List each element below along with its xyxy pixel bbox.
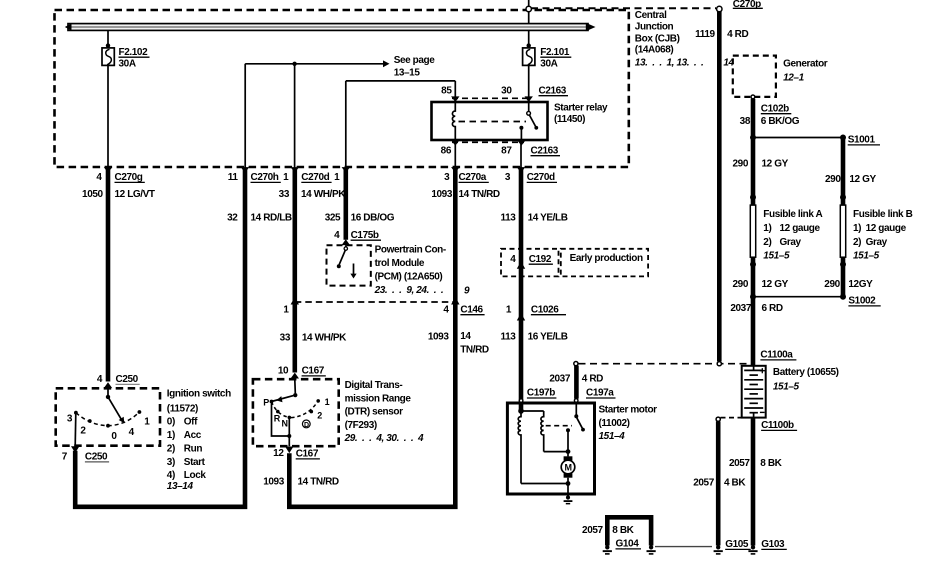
- wire contact 87 to relay bottom: [520, 128, 522, 140]
- wire 1050 12 LG/VT (CJB to ignition switch): [106, 169, 111, 382]
- wire winding return: [521, 483, 568, 485]
- CJB exit connector arrow C270g pin 4: [104, 167, 112, 173]
- dashed wire battery negative to 4 BK wire: [721, 417, 742, 419]
- wire 2057 4 BK (to G105): [716, 421, 721, 545]
- motor M1 (starter): [561, 456, 575, 477]
- starter relay (11450) box: [432, 102, 548, 140]
- svg-text:8 BK: 8 BK: [612, 525, 634, 536]
- svg-text:P: P: [263, 398, 269, 408]
- DTR pivot dot: [293, 393, 297, 397]
- DTR contact dashed arc: [272, 401, 319, 418]
- ignition contact dashed arc: [76, 412, 139, 426]
- svg-text:(14A068): (14A068): [635, 45, 674, 56]
- svg-text:C197b: C197b: [527, 388, 555, 399]
- svg-text:2: 2: [80, 426, 86, 437]
- central junction box (CJB) dashed outline: [55, 10, 629, 167]
- svg-text:16 DB/OG: 16 DB/OG: [351, 213, 395, 224]
- relay connector C2163 dashed line (top): [452, 97, 532, 99]
- bus bar (power feed inside CJB): [65, 23, 596, 31]
- connector C175b arrow: [342, 239, 350, 245]
- open circle top of 4 BK ground wire: [716, 417, 720, 421]
- svg-text:C146: C146: [460, 305, 483, 316]
- svg-text:C192: C192: [529, 254, 552, 265]
- svg-text:290: 290: [733, 279, 749, 290]
- wire fusible link B branch: [841, 138, 846, 297]
- relay connector C2163 dashed line (bottom): [452, 141, 524, 143]
- svg-text:290: 290: [824, 279, 840, 290]
- DTR contact D (circled): [302, 420, 310, 428]
- svg-text:N: N: [282, 419, 288, 429]
- dot at S1002 (right): [840, 294, 846, 300]
- svg-text:C167: C167: [296, 449, 319, 460]
- svg-text:7: 7: [62, 452, 68, 463]
- wire from bus bar up through CJB boundary (off-page feed): [528, 0, 530, 24]
- svg-text:14 TN/RD: 14 TN/RD: [459, 189, 500, 200]
- svg-text:1: 1: [334, 172, 340, 183]
- svg-text:Central: Central: [635, 10, 667, 21]
- svg-text:4: 4: [97, 374, 103, 385]
- svg-text:10: 10: [278, 366, 289, 377]
- svg-text:D: D: [304, 422, 309, 429]
- node C270p connector circle: [717, 6, 722, 11]
- splice S1001 tap wire: [753, 137, 843, 139]
- connector C250 arrow (exit pin 7): [71, 446, 79, 453]
- digital transmission range (DTR) sensor dashed box: [253, 379, 339, 446]
- ignition contact position 0: [106, 424, 110, 428]
- DTR switch blade to P: [272, 395, 296, 401]
- svg-text:4: 4: [129, 427, 135, 438]
- svg-text:2: 2: [317, 411, 322, 421]
- svg-text:C270d: C270d: [527, 172, 555, 183]
- svg-text:29. . . 4, 30. . . 4: 29. . . 4, 30. . . 4: [344, 433, 424, 444]
- svg-text:Run: Run: [184, 443, 203, 454]
- junction dot above fuse F2.102: [106, 43, 110, 47]
- DTR wire P branch: [272, 402, 290, 436]
- svg-text:Powertrain Con-: Powertrain Con-: [375, 244, 446, 255]
- starter mechanical link (dashed): [546, 425, 572, 427]
- svg-text:Gray: Gray: [866, 237, 888, 248]
- fuse F2.102: [102, 48, 114, 66]
- wire DB/OG to relay pin 85 (horizontal): [346, 80, 456, 82]
- svg-text:6 RD: 6 RD: [762, 303, 783, 314]
- svg-text:S1001: S1001: [848, 135, 876, 146]
- svg-text:38: 38: [740, 116, 751, 127]
- svg-text:1): 1): [167, 430, 175, 441]
- svg-text:2057: 2057: [729, 458, 750, 469]
- ground symbol (starter motor case): [564, 495, 573, 504]
- svg-text:F2.101: F2.101: [540, 47, 570, 58]
- svg-text:14 TN/RD: 14 TN/RD: [298, 477, 339, 488]
- svg-text:G103: G103: [761, 539, 785, 550]
- connector C146 dashed line: [295, 301, 456, 303]
- pin 87 connector arrow: [517, 140, 525, 146]
- svg-text:TN/RD: TN/RD: [460, 345, 489, 356]
- DTR wire N to pin 12 exit: [288, 417, 290, 446]
- svg-text:1093: 1093: [431, 189, 452, 200]
- svg-text:4: 4: [443, 305, 449, 316]
- wire 1119 4 RD (C270p to battery node): [717, 11, 722, 361]
- svg-text:4: 4: [510, 254, 516, 265]
- battery (10655): [742, 366, 766, 418]
- wire motor to box bottom: [567, 478, 569, 496]
- svg-text:12: 12: [273, 448, 284, 459]
- wire fuse F2.102 to CJB bottom edge: [107, 65, 109, 167]
- svg-text:Off: Off: [184, 417, 198, 428]
- wire contact to motor: [567, 430, 569, 456]
- svg-text:13–14: 13–14: [167, 481, 194, 492]
- connector circle on CJB boundary at x=528.7: [526, 6, 531, 11]
- pin 30 connector arrow: [525, 96, 533, 102]
- svg-text:4: 4: [96, 172, 102, 183]
- svg-text:87: 87: [501, 146, 512, 157]
- svg-text:1: 1: [325, 397, 330, 407]
- fusible link B element: [840, 205, 845, 257]
- wire relay pin 87 to CJB edge: [520, 140, 522, 168]
- svg-text:33: 33: [280, 333, 291, 344]
- svg-text:(7F293): (7F293): [345, 420, 377, 431]
- svg-text:C102b: C102b: [761, 104, 789, 115]
- ignition contact position 1: [138, 410, 142, 414]
- DTR contact P: [270, 400, 274, 404]
- wire fuse F2.101 to starter relay pin 30: [528, 65, 530, 102]
- wire from bus to fuse F2.102: [107, 30, 109, 48]
- svg-text:3): 3): [167, 457, 175, 468]
- powertrain control module (PCM) dashed box: [327, 245, 371, 285]
- svg-text:14 RD/LB: 14 RD/LB: [251, 213, 292, 224]
- svg-text:12 gauge: 12 gauge: [866, 223, 907, 234]
- svg-text:C2163: C2163: [531, 146, 559, 157]
- ignition switch entry wire: [107, 388, 109, 395]
- svg-text:C167: C167: [302, 366, 325, 377]
- svg-text:Junction: Junction: [635, 22, 674, 33]
- svg-text:C270g: C270g: [115, 172, 143, 183]
- svg-text:1): 1): [853, 223, 861, 234]
- ignition switch pivot dot: [106, 395, 110, 399]
- connector C146 arrow (pin 1): [291, 297, 299, 305]
- CJB exit connector arrow C270a pin 3: [451, 167, 459, 173]
- wire contact 3 to pin 7 exit: [74, 414, 77, 446]
- junction dot above fusible link A: [750, 194, 756, 200]
- svg-text:(PCM) (12A650): (PCM) (12A650): [375, 271, 443, 282]
- CJB exit connector arrow C270d pin 3: [517, 167, 525, 173]
- svg-text:1): 1): [763, 223, 771, 234]
- svg-text:4): 4): [167, 470, 175, 481]
- PCM switch blade: [339, 250, 345, 264]
- wire 325 16 DB/OG (CJB to PCM): [343, 169, 348, 240]
- connector C250 arrow (entry): [104, 382, 112, 388]
- svg-text:2057: 2057: [582, 525, 603, 536]
- ignition contact position 2: [88, 419, 92, 423]
- svg-text:14 WH/PK: 14 WH/PK: [301, 189, 346, 200]
- connector circle C102b at generator: [751, 95, 755, 99]
- ignition switch (11572) dashed box: [56, 388, 160, 445]
- junction dot above fusible link B: [840, 194, 846, 200]
- svg-text:13–15: 13–15: [394, 68, 421, 79]
- relay switch blade: [529, 115, 536, 127]
- connector C192 dashed box (early production): [501, 249, 559, 277]
- svg-text:C1100b: C1100b: [761, 420, 794, 431]
- connector circle C197b (at box): [519, 399, 523, 403]
- junction dot below fusible link A: [750, 261, 756, 267]
- solenoid pull-in winding (coil): [518, 411, 521, 484]
- svg-text:See page: See page: [394, 55, 436, 66]
- relay fixed contact (pin 87): [519, 126, 523, 130]
- svg-text:C270a: C270a: [459, 172, 487, 183]
- connector C167 arrow (entry): [291, 373, 299, 379]
- connector circle C197a (top): [574, 362, 578, 366]
- svg-text:C270h: C270h: [251, 172, 279, 183]
- svg-text:30A: 30A: [119, 59, 136, 70]
- svg-text:Box (CJB): Box (CJB): [635, 33, 680, 44]
- open circle end of 1119 4RD wire: [717, 362, 721, 366]
- svg-text:3: 3: [444, 172, 450, 183]
- svg-text:C1026: C1026: [531, 305, 559, 316]
- svg-text:C1100a: C1100a: [760, 350, 793, 361]
- PCM internal ground line: [353, 264, 355, 275]
- svg-text:Gray: Gray: [780, 237, 802, 248]
- solenoid hold-in winding (coil): [541, 411, 544, 452]
- starter relay coil: [452, 102, 455, 140]
- svg-text:30: 30: [501, 86, 512, 97]
- svg-text:12 GY: 12 GY: [762, 159, 789, 170]
- CJB exit connector arrow C270h pin 11: [241, 167, 249, 173]
- starter motor (11002) box: [507, 403, 594, 494]
- wire to second solenoid winding: [521, 410, 544, 412]
- svg-text:0: 0: [111, 431, 117, 442]
- svg-text:14 WH/PK: 14 WH/PK: [302, 333, 347, 344]
- svg-text:1: 1: [283, 305, 289, 316]
- svg-text:2037: 2037: [730, 303, 751, 314]
- ground G104 (left leg): [603, 545, 612, 555]
- svg-text:(11572): (11572): [167, 404, 198, 415]
- junction dot below fusible link B: [840, 261, 846, 267]
- svg-text:151–5: 151–5: [853, 251, 880, 262]
- svg-text:12 GY: 12 GY: [849, 174, 876, 185]
- starter solenoid switch entry: [575, 403, 577, 415]
- svg-text:2): 2): [853, 237, 861, 248]
- svg-text:113: 113: [500, 213, 516, 224]
- svg-text:1: 1: [506, 305, 512, 316]
- dot at fusible link B top: [840, 135, 846, 141]
- svg-text:3: 3: [67, 414, 73, 425]
- wire 1093 14 TN/RD (CJB to DTR sensor pin 12): [289, 169, 455, 507]
- junction dot at S1001: [750, 135, 756, 141]
- svg-text:C270d: C270d: [301, 172, 329, 183]
- arrow to other page: [383, 60, 390, 67]
- junction dot at motor feed: [566, 449, 571, 454]
- svg-text:(DTR) sensor: (DTR) sensor: [345, 407, 403, 418]
- svg-text:Generator: Generator: [783, 59, 828, 70]
- svg-text:G105: G105: [725, 539, 749, 550]
- svg-text:C175b: C175b: [351, 230, 379, 241]
- svg-text:8 BK: 8 BK: [760, 458, 782, 469]
- PCM blade contact dot: [337, 264, 341, 268]
- svg-text:2): 2): [167, 443, 175, 454]
- svg-text:290: 290: [825, 174, 841, 185]
- svg-text:(11450): (11450): [554, 114, 585, 125]
- svg-text:0): 0): [167, 417, 175, 428]
- wire from bus to fuse F2.101: [528, 30, 530, 48]
- DTR entry wire: [294, 379, 297, 393]
- CJB exit connector arrow C270d pin 1: [291, 167, 299, 173]
- svg-text:3: 3: [505, 172, 511, 183]
- ground G105: [714, 545, 723, 555]
- pin 86 connector arrow: [451, 140, 459, 146]
- svg-text:151–4: 151–4: [599, 431, 626, 442]
- svg-text:Lock: Lock: [184, 470, 207, 481]
- DTR contact R: [276, 410, 280, 414]
- svg-text:11: 11: [228, 172, 239, 183]
- connector circle C197a (at box): [574, 399, 578, 403]
- solenoid switch blade: [577, 418, 583, 429]
- svg-text:9: 9: [464, 286, 470, 297]
- DTR junction dot: [287, 434, 291, 438]
- svg-text:14 YE/LB: 14 YE/LB: [528, 213, 568, 224]
- svg-text:(11002): (11002): [599, 418, 630, 429]
- svg-text:4 RD: 4 RD: [727, 29, 748, 40]
- PCM internal ground arrow: [350, 274, 356, 279]
- wire 2057 8 BK ground jumper (G104 loop): [607, 517, 651, 545]
- ground G104 (right leg): [647, 545, 656, 555]
- fusible link A element: [750, 205, 755, 257]
- svg-text:16 YE/LB: 16 YE/LB: [528, 331, 568, 342]
- ground G103: [748, 545, 757, 555]
- svg-text:Ignition switch: Ignition switch: [167, 389, 231, 400]
- wire 2057 8 BK (battery negative to G103): [751, 418, 756, 546]
- solenoid switch contact (top): [574, 414, 578, 418]
- svg-text:4 RD: 4 RD: [582, 373, 603, 384]
- ignition contact position 3: [74, 411, 78, 415]
- svg-text:290: 290: [733, 159, 749, 170]
- junction dot at motor return: [566, 481, 571, 486]
- svg-text:12 LG/VT: 12 LG/VT: [115, 189, 155, 200]
- wire C270h riser inside CJB: [244, 64, 246, 168]
- svg-text:12GY: 12GY: [848, 279, 873, 290]
- svg-text:Fusible link B: Fusible link B: [853, 209, 913, 220]
- junction dot at S1002 (left): [750, 294, 756, 300]
- svg-text:M: M: [564, 463, 571, 473]
- connector C146 arrow (pin 4): [451, 297, 459, 305]
- svg-text:1119: 1119: [695, 29, 715, 40]
- pin 85 connector arrow: [451, 96, 459, 102]
- svg-text:113: 113: [500, 331, 516, 342]
- ignition switch blade: [108, 397, 122, 420]
- svg-text:Starter relay: Starter relay: [554, 103, 608, 114]
- generator dashed box: [733, 56, 776, 97]
- svg-text:1093: 1093: [263, 477, 284, 488]
- svg-text:32: 32: [227, 213, 238, 224]
- svg-text:1050: 1050: [82, 189, 103, 200]
- wire generator to battery (6 BK/OG then 12 GY then 6 RD): [751, 99, 756, 366]
- svg-text:2): 2): [763, 237, 771, 248]
- wire winding 2 to motor node: [544, 451, 568, 453]
- svg-text:Acc: Acc: [184, 430, 202, 441]
- wire 113 YE/LB (CJB to starter motor solenoid C197b): [519, 169, 524, 411]
- wire 32 14 RD/LB (ignition switch pin 7 loop to CJB C270h): [75, 169, 245, 507]
- svg-text:R: R: [274, 414, 281, 424]
- svg-text:C197a: C197a: [586, 388, 614, 399]
- svg-text:F2.102: F2.102: [119, 47, 149, 58]
- svg-text:151–5: 151–5: [773, 382, 800, 393]
- wire to see-page arrow: [245, 63, 383, 65]
- svg-text:86: 86: [441, 146, 452, 157]
- solenoid fixed contact: [566, 428, 570, 432]
- svg-text:2037: 2037: [549, 373, 570, 384]
- note box Early production: [561, 249, 648, 277]
- svg-text:S1002: S1002: [848, 296, 876, 307]
- svg-text:trol Module: trol Module: [375, 258, 425, 269]
- DTR contact N: [288, 416, 292, 420]
- relay mechanical link (dashed): [459, 121, 527, 123]
- fuse F2.101: [523, 48, 535, 66]
- svg-text:C250: C250: [85, 452, 108, 463]
- wire DB/OG riser inside CJB: [345, 81, 347, 168]
- svg-text:1: 1: [144, 417, 150, 428]
- svg-text:12–1: 12–1: [783, 73, 804, 84]
- svg-text:6 BK/OG: 6 BK/OG: [761, 116, 800, 127]
- ground reference wire (thin): [655, 546, 712, 548]
- svg-text:151–5: 151–5: [763, 251, 790, 262]
- dashed boundary extension to connector C270p: [531, 7, 716, 9]
- svg-text:Digital Trans-: Digital Trans-: [345, 380, 403, 391]
- svg-text:Start: Start: [184, 457, 206, 468]
- svg-text:12 GY: 12 GY: [762, 279, 789, 290]
- svg-text:Starter motor: Starter motor: [599, 405, 658, 416]
- svg-text:14: 14: [460, 331, 471, 342]
- svg-text:C250: C250: [116, 374, 139, 385]
- relay switch pivot: [528, 102, 530, 111]
- svg-text:2057: 2057: [693, 478, 714, 489]
- DTR contact 1: [316, 399, 320, 403]
- wire 33 14 WH/PK (CJB to DTR sensor): [292, 169, 297, 373]
- wire down to relay pin 85: [454, 81, 456, 102]
- svg-text:33: 33: [279, 189, 290, 200]
- svg-text:85: 85: [441, 86, 452, 97]
- dashed wire battery positive to C197a and 4RD wire: [579, 363, 752, 365]
- splice S1002 tap wire: [753, 296, 843, 298]
- wire WH/PK riser inside CJB: [294, 64, 296, 168]
- svg-text:30A: 30A: [540, 59, 557, 70]
- connector C192 arrow: [517, 261, 525, 269]
- svg-text:4 BK: 4 BK: [724, 478, 746, 489]
- wire relay pin 86 to CJB edge: [454, 140, 456, 168]
- svg-text:mission Range: mission Range: [345, 393, 412, 404]
- wire 2037 4 RD (battery dashed node to starter solenoid C197a): [574, 366, 579, 399]
- CJB exit connector arrow pin 1 (DB/OG): [342, 167, 350, 173]
- connector C167 arrow (exit pin 12): [285, 447, 293, 454]
- svg-text:Early production: Early production: [570, 253, 643, 264]
- PCM switch pivot: [345, 245, 347, 247]
- solenoid junction dot: [518, 408, 524, 414]
- svg-text:12 gauge: 12 gauge: [780, 223, 821, 234]
- svg-text:13. . . 1, 13. . .: 13. . . 1, 13. . .: [635, 58, 704, 69]
- svg-text:Battery (10655): Battery (10655): [773, 367, 839, 378]
- svg-text:C2163: C2163: [539, 86, 567, 97]
- connector C1026 arrow: [517, 313, 525, 321]
- svg-text:4: 4: [334, 230, 340, 241]
- svg-text:1: 1: [283, 172, 289, 183]
- svg-text:325: 325: [325, 213, 341, 224]
- DTR contact 2: [310, 410, 314, 414]
- junction dot above fuse F2.101: [527, 43, 531, 47]
- junction dot at WH/PK tap: [292, 62, 296, 66]
- svg-text:Fusible link A: Fusible link A: [763, 209, 822, 220]
- svg-text:23. . . 9, 24. . .: 23. . . 9, 24. . .: [374, 285, 444, 296]
- svg-text:1093: 1093: [428, 332, 449, 343]
- svg-text:G104: G104: [616, 539, 640, 550]
